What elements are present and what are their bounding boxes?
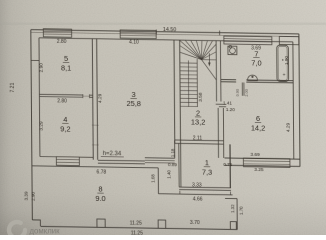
door line 2 room6 [219, 106, 226, 108]
svg-text:3.39: 3.39 [24, 191, 29, 200]
svg-text:4: 4 [63, 115, 67, 124]
closet right wall [174, 140, 176, 158]
svg-text:2.80: 2.80 [57, 39, 67, 45]
svg-text:3.29: 3.29 [39, 121, 45, 131]
svg-text:0.89: 0.89 [168, 162, 177, 167]
svg-text:+: + [283, 72, 286, 78]
svg-text:3.25: 3.25 [254, 167, 264, 173]
tick top dim 2 [219, 31, 221, 36]
svg-text:1.70: 1.70 [238, 206, 243, 215]
svg-text:14.50: 14.50 [163, 27, 176, 33]
closet second line [145, 159, 175, 161]
svg-text:домклик: домклик [30, 226, 61, 235]
svg-text:2.90: 2.90 [39, 63, 45, 73]
paper crease [0, 23, 326, 25]
washer/boiler room7 [228, 46, 237, 55]
column c3 [230, 222, 236, 229]
room6 bottom wall [225, 158, 300, 159]
wall B stub 2 [90, 96, 93, 98]
svg-text:1.32: 1.32 [230, 204, 235, 213]
tick left wall [31, 59, 39, 61]
dim tick a [179, 191, 181, 194]
svg-text:1.20: 1.20 [226, 107, 235, 112]
left step [32, 220, 40, 227]
tick wall A a [92, 124, 99, 126]
svg-text:0.90: 0.90 [236, 89, 240, 96]
stair direction arrow [208, 53, 210, 64]
svg-text:1.40: 1.40 [166, 170, 171, 179]
window W5 room4/8 [56, 157, 79, 166]
svg-text:4.29: 4.29 [97, 93, 103, 103]
room7 bottom wall left seg [221, 79, 236, 81]
svg-text:1.18: 1.18 [170, 148, 175, 157]
svg-text:2.00: 2.00 [245, 89, 249, 96]
dim line 4.66 [158, 194, 232, 195]
tick wall A b [92, 144, 99, 146]
room7 bottom wall right seg [246, 79, 293, 82]
svg-text:1.90: 1.90 [284, 56, 289, 65]
window W2 room3 [120, 30, 156, 39]
svg-text:1: 1 [205, 158, 209, 167]
wall D right segment [79, 156, 93, 158]
dim tick b [229, 192, 231, 195]
wall room3 bottom [98, 159, 145, 162]
window W3b corner [279, 36, 299, 44]
closet third line [145, 162, 175, 164]
svg-text:0.75: 0.75 [223, 162, 232, 167]
svg-text:5: 5 [64, 54, 68, 63]
watermark logo circle [9, 222, 25, 238]
deck line bottom [41, 226, 237, 229]
room7 door leaf [241, 82, 243, 95]
porch right wall [236, 199, 238, 230]
porch step top [225, 197, 237, 199]
wall room5/4 [39, 93, 82, 96]
svg-text:2: 2 [196, 109, 200, 118]
svg-text:3: 3 [132, 90, 136, 99]
toilet room7 [248, 75, 258, 81]
svg-text:9,2: 9,2 [60, 124, 70, 133]
svg-text:11.25: 11.25 [130, 221, 142, 227]
room1 bottom wall [179, 186, 231, 189]
wall outer top [31, 30, 299, 34]
room2 bottom wall [175, 139, 224, 142]
room7/6 left wall upper [215, 41, 217, 102]
room1 left wall [178, 144, 180, 188]
window W4 room6 [243, 158, 290, 167]
wall vestibule V1 [157, 168, 159, 194]
svg-text:7,0: 7,0 [251, 58, 261, 67]
bathtub inner [278, 46, 287, 80]
wall room4 bottom [40, 156, 56, 158]
door threshold room5/4 [83, 95, 90, 97]
svg-text:2.11: 2.11 [193, 136, 203, 142]
wall room5/3 + room4/3 [91, 39, 94, 160]
wall inner left [38, 38, 41, 157]
svg-text:1.68: 1.68 [150, 174, 155, 183]
stairs [180, 40, 202, 59]
svg-text:7: 7 [254, 49, 258, 58]
svg-text:4.29: 4.29 [285, 122, 291, 132]
svg-text:2.80: 2.80 [57, 98, 67, 104]
door jamb b room5/4 [89, 94, 91, 98]
door jamb a room5/4 [82, 94, 84, 98]
stair center line [187, 60, 189, 106]
svg-text:7.21: 7.21 [10, 82, 16, 92]
window W1 room5 [43, 29, 71, 38]
svg-text:13,2: 13,2 [191, 118, 205, 127]
wall room8 top [32, 166, 158, 168]
svg-text:14,2: 14,2 [251, 123, 265, 132]
window W3 room7/stair [224, 36, 272, 45]
svg-text:3.33: 3.33 [192, 182, 202, 188]
wall inner top [39, 38, 293, 42]
closet top line [145, 157, 175, 159]
svg-text:9.0: 9.0 [95, 194, 105, 203]
svg-text:1.41: 1.41 [223, 100, 232, 105]
svg-text:8,1: 8,1 [61, 63, 71, 72]
svg-text:2.90: 2.90 [31, 191, 36, 200]
wall outer right [299, 34, 300, 167]
dimension line 14.50 [31, 32, 299, 36]
wall B stub [90, 94, 93, 96]
room1 right wall [229, 144, 231, 188]
svg-text:4.66: 4.66 [193, 196, 203, 202]
svg-text:3.69: 3.69 [250, 152, 260, 158]
wall room3/2 left of stairs [173, 40, 176, 144]
column c2 [158, 220, 166, 228]
door line 1 room6 [216, 103, 226, 105]
wall outer left [31, 30, 33, 220]
stair tread end line [196, 59, 198, 107]
tick top dim 1 [155, 30, 157, 35]
svg-text:25,8: 25,8 [126, 99, 140, 108]
svg-text:4.10: 4.10 [129, 39, 139, 45]
svg-text:6.78: 6.78 [96, 170, 106, 176]
svg-text:6: 6 [256, 114, 260, 123]
svg-text:3.58: 3.58 [198, 92, 204, 102]
svg-text:3.70: 3.70 [190, 220, 200, 226]
svg-text:7,3: 7,3 [202, 167, 212, 176]
svg-text:8: 8 [98, 185, 102, 194]
room6 left wall lower [217, 108, 219, 158]
wall inner right [292, 42, 295, 159]
bathtub room7 [277, 45, 289, 81]
svg-text:11.25: 11.25 [131, 230, 143, 235]
column c1 [97, 219, 105, 227]
